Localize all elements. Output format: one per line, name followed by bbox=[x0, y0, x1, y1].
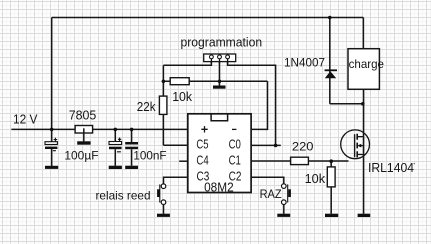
wire top rail from left branch to charge branch bbox=[52, 17, 364, 19]
ground symbol cap3 100nF bbox=[125, 166, 138, 169]
transistor Q1 MOSFET IRL1404 bbox=[341, 130, 370, 159]
svg-text:22k: 22k bbox=[137, 100, 156, 114]
junction 10k / 22k / programmation pin1 bbox=[162, 80, 166, 84]
ground symbol reed switch bbox=[157, 214, 170, 217]
wire diode branch vertical bbox=[329, 18, 331, 104]
wire cap C3 100nF to rail and ground bbox=[131, 129, 133, 165]
charge box bbox=[348, 49, 379, 90]
wire diode bottom horizontal to drain column bbox=[330, 103, 364, 105]
ground symbol cap2 bbox=[109, 166, 122, 169]
ground symbol RAZ button bbox=[277, 214, 290, 217]
wire drain-source column to ground bbox=[363, 104, 365, 214]
ground symbol cap 100uF bbox=[45, 166, 58, 169]
capacitor 100nF plates bbox=[125, 142, 138, 149]
svg-text:charge: charge bbox=[349, 57, 385, 71]
wire charge top bbox=[362, 18, 364, 49]
wire reed switch to ground bbox=[163, 205, 165, 214]
junction diode bottom / drain column bbox=[361, 102, 365, 106]
wire C3 pin to reed switch bbox=[164, 177, 188, 184]
svg-text:C5: C5 bbox=[196, 138, 208, 152]
junction ground row / programmation pin2 bbox=[218, 80, 222, 84]
svg-text:relais reed: relais reed bbox=[96, 189, 151, 203]
wire IC minus pin right and up to ground row bbox=[251, 81, 267, 129]
svg-text:1N4007: 1N4007 bbox=[284, 56, 325, 70]
wire C5 row to IC bbox=[163, 144, 187, 146]
IC pin label + bbox=[201, 126, 207, 132]
wire gate node down through 10k to ground bbox=[330, 161, 332, 214]
IC pin label - bbox=[232, 128, 236, 130]
junction gate / 10k pulldown bbox=[329, 159, 333, 163]
capacitor 100uF plates bbox=[45, 138, 57, 151]
svg-text:C2: C2 bbox=[229, 170, 242, 184]
resistor 22k bbox=[159, 96, 167, 114]
svg-text:C0: C0 bbox=[229, 138, 241, 152]
svg-text:220: 220 bbox=[292, 140, 314, 154]
capacitor cap2 plates bbox=[109, 138, 122, 152]
wire programmation pin1 down-left to 22k node bbox=[163, 58, 211, 65]
svg-text:10k: 10k bbox=[305, 172, 326, 186]
wire 12V horizontal rail to IC + pin bbox=[11, 128, 187, 130]
svg-text:C4: C4 bbox=[196, 154, 208, 168]
switch reed (relais reed) bbox=[157, 184, 166, 205]
svg-text:IRL1404: IRL1404 bbox=[368, 161, 414, 175]
svg-text:10k: 10k bbox=[172, 90, 193, 104]
IC U1 08M2 box with notch bbox=[188, 114, 251, 193]
ground symbol MOSFET source bbox=[358, 214, 371, 217]
wire 22k column pin1 to C5 row crossing rail bbox=[162, 65, 164, 145]
wire RAZ button to ground bbox=[283, 205, 285, 214]
svg-text:100nF: 100nF bbox=[133, 149, 166, 163]
wire 10k horizontal row to minus column bbox=[163, 80, 267, 82]
junction rail / cap2 bbox=[114, 128, 118, 132]
wire programmation pin2 down to ground node bbox=[219, 58, 221, 86]
junction C0 / programmation pin3 column bbox=[274, 144, 278, 148]
svg-text:7805: 7805 bbox=[69, 108, 97, 123]
resistor 10k programmation bbox=[170, 78, 189, 85]
resistor 10k gate pulldown bbox=[327, 167, 335, 187]
junction top rail / diode branch bbox=[328, 16, 332, 20]
stray mark after IRL1404 bbox=[414, 163, 416, 165]
wire C1 pin through 220 to gate bbox=[251, 160, 348, 162]
svg-text:C3: C3 bbox=[197, 170, 210, 184]
svg-text:C1: C1 bbox=[229, 154, 241, 168]
resistor 220 bbox=[291, 157, 309, 164]
regulator 7805 box with ground stub bbox=[75, 126, 93, 142]
ground symbol programmation bbox=[213, 86, 226, 89]
svg-text:programmation: programmation bbox=[181, 36, 263, 50]
connector programmation box with 3 pins bbox=[204, 54, 236, 64]
switch RAZ pushbutton bbox=[282, 184, 291, 205]
svg-text:100µF: 100µF bbox=[64, 149, 98, 163]
wire C0 pin to junction bbox=[251, 144, 281, 146]
svg-text:12 V: 12 V bbox=[13, 113, 38, 127]
wire left vertical 12V up to top rail bbox=[51, 18, 53, 130]
diode 1N4007 bbox=[325, 69, 337, 78]
junction 12V rail / left branch bbox=[50, 128, 54, 132]
ground symbol 7805 bbox=[77, 141, 90, 144]
wire C2 pin to RAZ button bbox=[251, 177, 284, 184]
ground symbol 10k pulldown bbox=[325, 214, 338, 217]
wire cap C1 100uF to rail and ground bbox=[51, 129, 53, 166]
svg-text:RAZ: RAZ bbox=[260, 187, 282, 201]
junction rail / cap3 100nF bbox=[130, 128, 134, 132]
wire programmation pin3 down-right to C0 column bbox=[228, 58, 276, 145]
wire charge bottom to drain node bbox=[363, 89, 365, 103]
wire C4 stub bbox=[179, 160, 188, 162]
wire cap C2 to rail and ground bbox=[114, 129, 116, 165]
